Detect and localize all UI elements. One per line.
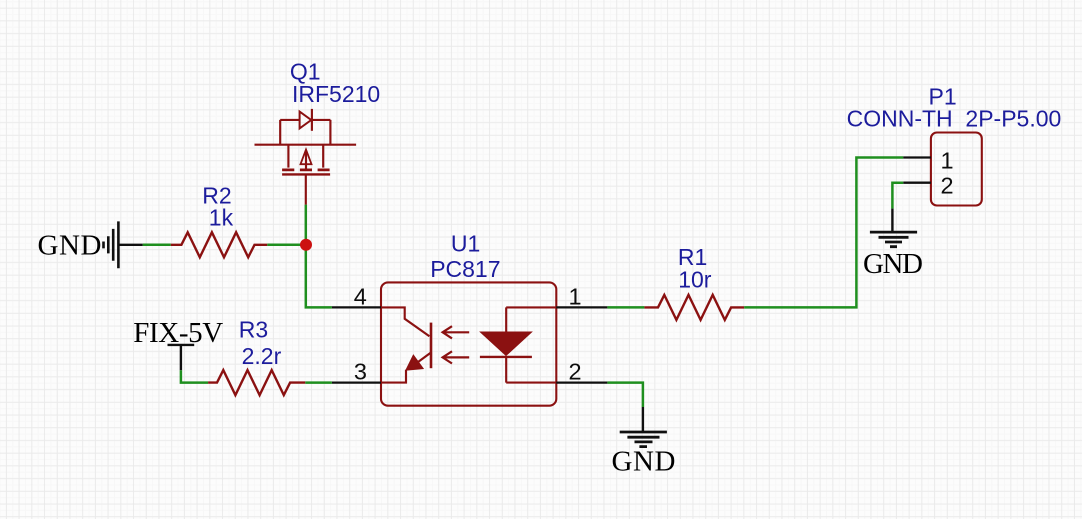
- wire (R2 to junction): [267, 244, 306, 247]
- svg-text:GND: GND: [38, 230, 102, 262]
- wire (R1 to P1 pin 1): [744, 158, 903, 308]
- opto-coupler U1 PC817 body: [381, 282, 556, 405]
- svg-text:IRF5210: IRF5210: [292, 81, 380, 107]
- svg-text:PC817: PC817: [430, 256, 500, 282]
- wire (junction up to Q1 gate): [305, 205, 308, 245]
- svg-text:2.2r: 2.2r: [242, 343, 282, 369]
- wire (junction down to U1 pin 4): [306, 245, 332, 308]
- U1 pin 3: [332, 381, 381, 383]
- svg-text:10r: 10r: [678, 266, 712, 292]
- U1 phototransistor: [381, 307, 429, 336]
- svg-text:2: 2: [568, 358, 581, 384]
- transistor Q1 IRF5210: [255, 109, 357, 205]
- svg-text:GND: GND: [863, 248, 923, 280]
- P1 pin 1: [903, 156, 931, 158]
- wire (FIX-5V to R3): [181, 370, 208, 382]
- svg-text:R3: R3: [239, 317, 268, 343]
- ground (bottom): [620, 407, 667, 447]
- svg-text:1: 1: [941, 147, 954, 173]
- svg-text:U1: U1: [451, 230, 480, 256]
- svg-text:GND: GND: [612, 446, 676, 478]
- connector P1 body: [931, 133, 982, 206]
- resistor R2: [171, 232, 267, 257]
- net flag FIX-5V: [168, 345, 195, 370]
- ground (near P1): [870, 209, 917, 247]
- U1 pin 1: [556, 306, 607, 308]
- wire (U1 pin 1 to R1): [607, 306, 644, 309]
- wire (P1 pin 2 to GND): [892, 183, 903, 209]
- U1 LED triangle: [480, 332, 531, 356]
- U1 emitter arrowhead: [406, 356, 422, 370]
- U1 LED anode: [506, 307, 556, 332]
- ground GND (left, rotated): [104, 221, 143, 268]
- junction node: [300, 239, 312, 251]
- svg-text:CONN-TH 2P-P5.00: CONN-TH 2P-P5.00: [847, 105, 1062, 131]
- svg-text:2: 2: [941, 172, 954, 198]
- svg-text:3: 3: [354, 358, 367, 384]
- svg-text:1: 1: [568, 284, 581, 310]
- resistor R3: [208, 370, 305, 395]
- P1 pin 2: [903, 182, 931, 184]
- svg-text:4: 4: [354, 284, 367, 310]
- resistor R1: [644, 295, 744, 320]
- U1 pin 4: [332, 306, 381, 308]
- svg-text:1k: 1k: [209, 205, 234, 231]
- wire (GND to R2): [143, 244, 171, 247]
- wire (R3 to U1 pin 3): [305, 381, 332, 384]
- svg-text:FIX-5V: FIX-5V: [133, 317, 223, 349]
- wire (U1 pin 2 to GND): [607, 383, 643, 407]
- U1 pin 2: [556, 381, 607, 383]
- U1 LED cathode: [480, 356, 532, 358]
- U1 light arrows: [443, 326, 470, 338]
